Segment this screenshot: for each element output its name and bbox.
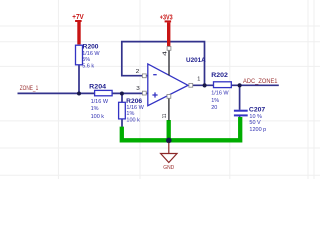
svg-text:+7V: +7V xyxy=(72,14,84,21)
wire C207 bottom stub xyxy=(239,116,241,119)
svg-text:1/16 W: 1/16 W xyxy=(211,91,229,97)
junction output/feedback xyxy=(203,83,207,87)
svg-text:R206: R206 xyxy=(126,98,142,105)
svg-text:50 V: 50 V xyxy=(249,120,261,126)
capacitor C207 xyxy=(234,106,266,132)
pin 3 square xyxy=(142,91,146,95)
junction pin3/R206 xyxy=(120,92,124,96)
power port +3V3 xyxy=(160,15,173,47)
pin 2 square xyxy=(142,74,146,78)
resistor R206 xyxy=(119,98,145,124)
ground xyxy=(161,143,177,172)
svg-text:100 k: 100 k xyxy=(91,114,105,120)
svg-text:1%: 1% xyxy=(91,106,99,112)
junction GND net xyxy=(166,138,172,144)
svg-text:R204: R204 xyxy=(89,83,106,90)
svg-text:1/16 W: 1/16 W xyxy=(82,51,100,57)
pin 1 square xyxy=(189,83,193,87)
faint grid xyxy=(0,0,320,179)
svg-text:11: 11 xyxy=(162,114,168,119)
svg-text:1: 1 xyxy=(197,76,200,82)
svg-text:1%: 1% xyxy=(126,111,134,117)
wire ZONE_1 net to pin 3 xyxy=(18,92,148,94)
svg-text:U201A: U201A xyxy=(186,57,206,64)
junction output/C207 xyxy=(238,83,242,87)
svg-text:10 %: 10 % xyxy=(249,114,262,120)
wire R206 top pin xyxy=(121,93,123,102)
wire R200 bottom pin xyxy=(78,65,80,93)
svg-text:2: 2 xyxy=(136,69,140,75)
wire output net xyxy=(188,84,278,86)
op-amp U201A xyxy=(136,47,206,121)
svg-text:100 k: 100 k xyxy=(126,117,140,123)
resistor R202 xyxy=(211,72,231,111)
pin 4 xyxy=(168,50,170,75)
svg-text:C207: C207 xyxy=(249,106,266,113)
svg-text:R200: R200 xyxy=(83,44,99,51)
svg-text:ZONE_1: ZONE_1 xyxy=(20,85,39,92)
wire pin11 to GND green xyxy=(167,120,171,140)
svg-text:20: 20 xyxy=(211,105,217,111)
wire GND net green xyxy=(122,117,240,140)
junction R200/ZONE_1 xyxy=(77,92,81,96)
wire feedback loop xyxy=(122,42,205,86)
power port +7V xyxy=(72,14,84,44)
svg-text:1/16 W: 1/16 W xyxy=(91,99,109,105)
pin 11 xyxy=(168,95,170,120)
svg-text:3: 3 xyxy=(136,86,140,92)
svg-text:5%: 5% xyxy=(82,57,90,63)
wire R206 bottom pin xyxy=(121,119,123,127)
svg-text:ADC_ZONE1: ADC_ZONE1 xyxy=(243,78,278,85)
resistor R200 xyxy=(76,44,101,70)
svg-text:1%: 1% xyxy=(211,98,219,104)
resistor R204 xyxy=(89,83,112,120)
svg-text:5.6 k: 5.6 k xyxy=(82,63,94,69)
svg-text:1200 p: 1200 p xyxy=(249,127,266,133)
svg-text:GND: GND xyxy=(163,165,174,171)
svg-text:R202: R202 xyxy=(211,72,228,79)
svg-text:1/16 W: 1/16 W xyxy=(126,105,144,111)
wire C207 top xyxy=(239,85,241,110)
